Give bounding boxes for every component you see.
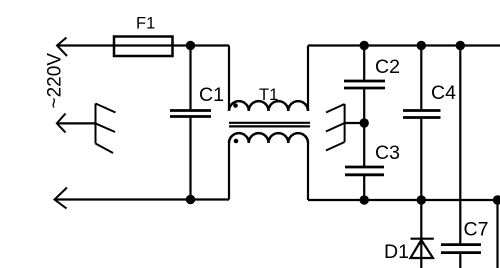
- svg-text:~220V: ~220V: [45, 53, 66, 109]
- svg-text:T1: T1: [259, 86, 278, 104]
- svg-text:C7: C7: [464, 219, 489, 241]
- svg-text:C1: C1: [199, 84, 224, 106]
- svg-text:C4: C4: [431, 82, 456, 104]
- svg-text:C2: C2: [375, 56, 400, 78]
- svg-text:C3: C3: [375, 142, 400, 164]
- svg-text:D1: D1: [384, 241, 409, 263]
- svg-text:F1: F1: [136, 15, 155, 33]
